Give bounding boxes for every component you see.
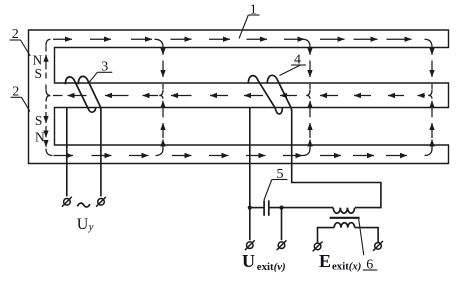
wire: secondary left lead (318, 228, 335, 243)
winding 3 (control winding on middle limb) (65, 76, 101, 112)
label Uy (77, 216, 94, 233)
label 3 with leader (89, 60, 113, 83)
svg-text:S: S (34, 66, 42, 81)
wire: winding 4 left lead down to node A (249, 108, 251, 241)
label 4 with leader (280, 52, 307, 75)
svg-text:U: U (242, 251, 255, 271)
transformer 6 primary winding (333, 208, 354, 214)
svg-text:E: E (319, 251, 331, 271)
flux line left yoke (45, 46, 47, 147)
pole label N lower (35, 130, 45, 145)
label Eexit(x) (319, 251, 361, 273)
terminal Uexit left (245, 240, 255, 250)
wire: node B drop to terminal (281, 208, 283, 241)
wire: node A to capacitor (250, 207, 264, 209)
flux branch at x=163 (162, 48, 164, 150)
label 1 with leader (239, 3, 260, 39)
wire: winding 3 right lead (100, 110, 102, 196)
label 2 with leader (11, 85, 31, 112)
transformer 6 secondary winding (334, 223, 354, 228)
label Uexit(v) (242, 251, 286, 273)
pole label N upper (33, 52, 43, 67)
node A junction dot (248, 206, 252, 210)
wire: winding 3 left lead (66, 108, 68, 197)
svg-text:exit(v): exit(v) (257, 261, 286, 273)
wire: capacitor to transformer primary (269, 207, 333, 209)
svg-text:U: U (77, 216, 89, 233)
flux line top limb (46, 39, 432, 47)
node B junction dot (279, 206, 283, 210)
pole label S lower (35, 113, 43, 128)
terminal Uy right (96, 197, 106, 207)
wire: secondary right lead (355, 228, 379, 243)
label 2 with leader (10, 27, 31, 56)
winding 4 (output winding on middle limb) (248, 75, 291, 114)
terminal Eexit left (313, 242, 323, 252)
svg-text:S: S (35, 113, 43, 128)
flux branch at x=432 (431, 48, 433, 150)
magnetic core 1 (three limbs + left yoke outline) (29, 30, 449, 164)
terminal Uexit right (277, 240, 287, 250)
label 6 with leader (359, 218, 378, 272)
flux branch at x=310 (309, 48, 311, 150)
AC source symbol ~ (78, 203, 90, 207)
svg-text:exit(x): exit(x) (332, 260, 361, 272)
svg-text:N: N (35, 130, 45, 145)
flux line middle limb (46, 90, 432, 102)
capacitor 5 (264, 200, 269, 216)
wire: winding 4 right lead to transformer primary (292, 111, 381, 208)
svg-text:y: y (88, 222, 94, 233)
terminal Eexit right (373, 241, 383, 251)
label 5 with leader (264, 167, 288, 200)
terminal Uy left (62, 197, 72, 207)
pole label S upper (34, 66, 42, 81)
flux line bottom limb (46, 149, 432, 156)
transformer 6 core (330, 217, 360, 219)
